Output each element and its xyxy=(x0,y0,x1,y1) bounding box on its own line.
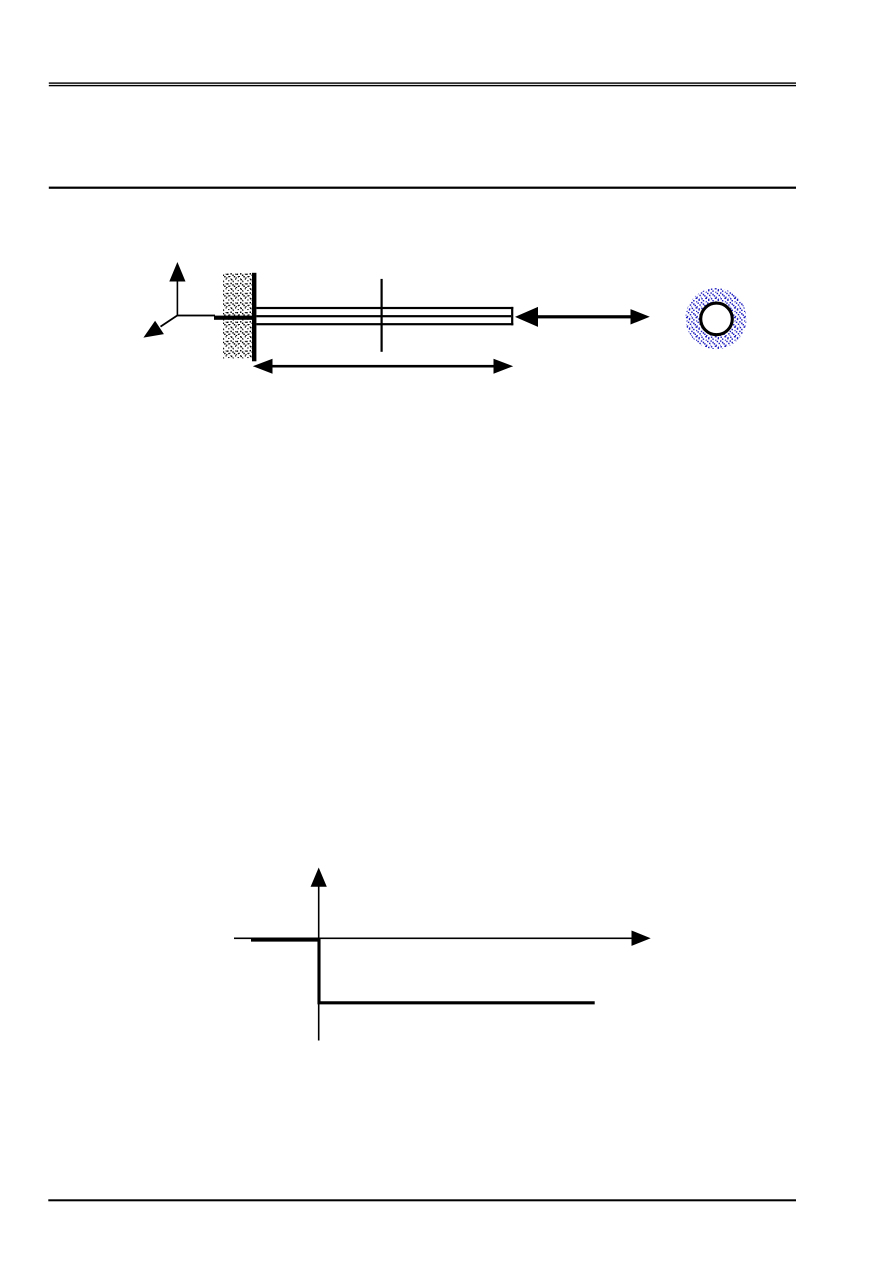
thick support stub at wall xyxy=(214,316,254,320)
header double rule (lower line) xyxy=(49,85,796,86)
axial force double arrow at beam tip xyxy=(515,307,650,327)
step function trace xyxy=(251,940,595,1003)
beam right edge xyxy=(511,307,513,325)
beam midspan tick xyxy=(381,279,383,352)
cross-section halo (blue stipple) xyxy=(686,288,747,349)
axis arrow vertical (y axis of triad) xyxy=(169,262,185,316)
graph y-axis xyxy=(311,868,327,1041)
header single rule xyxy=(49,187,796,189)
footer rule xyxy=(48,1199,796,1201)
axis arrow diagonal (z axis of triad) xyxy=(143,315,177,337)
length dimension double arrow below beam xyxy=(253,359,513,374)
header double rule (upper line) xyxy=(49,82,796,83)
beam bottom line xyxy=(256,323,513,325)
wall edge bar xyxy=(252,273,256,362)
graph x-axis xyxy=(234,931,651,946)
axis line horizontal (x axis of triad to wall) xyxy=(177,315,215,317)
cross-section circle xyxy=(701,303,733,335)
beam top line xyxy=(256,307,513,309)
wall hatch block xyxy=(223,273,252,359)
beam centerline xyxy=(256,315,511,317)
